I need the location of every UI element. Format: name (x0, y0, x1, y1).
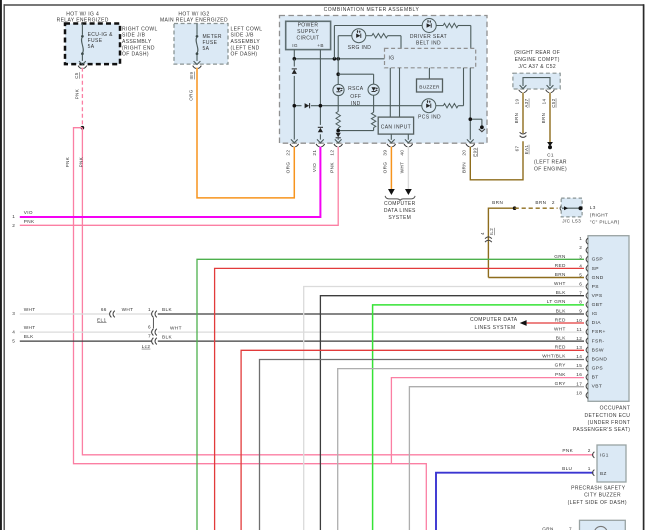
node R1 R2 join (336, 129, 340, 133)
wire IG bus horizontal (294, 58, 384, 60)
label PNK 2 buzzer (562, 448, 590, 453)
label wire color PNK at pin (330, 162, 335, 173)
label DRIVER SEAT BELT IND (410, 34, 447, 46)
dashed border combination meter (280, 16, 488, 144)
label BRN left of node (492, 200, 503, 205)
svg-text:DATA LINES: DATA LINES (384, 208, 416, 214)
pin 22 of combination meter (290, 139, 299, 146)
connector Lc2 row 3 (148, 307, 157, 317)
svg-text:17: 17 (576, 381, 582, 386)
svg-text:VBT: VBT (592, 384, 603, 390)
wire PNK pin 12 to left edge pin 2 (20, 147, 338, 226)
svg-text:IG1: IG1 (600, 452, 609, 457)
label PCS IND (418, 114, 441, 120)
svg-text:BRN: BRN (555, 272, 566, 277)
svg-text:ORG: ORG (189, 89, 194, 101)
pin 6 of occupant detection ECU (554, 281, 599, 290)
diode D2 in PCS row (302, 103, 311, 109)
svg-text:BUZZER: BUZZER (419, 84, 440, 90)
svg-text:4: 4 (12, 329, 15, 334)
svg-text:5: 5 (579, 272, 582, 277)
wire PNK to precrash buzzer IG1 (82, 128, 593, 455)
svg-text:BRN: BRN (535, 200, 546, 205)
svg-text:OCCUPANT: OCCUPANT (600, 405, 631, 411)
label L3 RIGHT C PILLAR (590, 205, 620, 224)
svg-text:6: 6 (579, 282, 582, 287)
label pin number 20 (462, 150, 467, 156)
svg-text:COMBINATION METER ASSEMBLY: COMBINATION METER ASSEMBLY (324, 7, 420, 13)
svg-text:IE9: IE9 (189, 71, 194, 79)
svg-text:LT GRN: LT GRN (547, 299, 566, 304)
svg-text:WHT/BLK: WHT/BLK (542, 354, 566, 359)
connector label C5 (74, 72, 79, 79)
pin 17 of occupant detection ECU (555, 381, 603, 390)
label OCCUPANT DETECTION ECU (UNDER FRONT PASSENGER'S SEAT) (573, 405, 630, 433)
svg-text:5A: 5A (88, 44, 95, 50)
svg-text:8: 8 (579, 300, 582, 305)
svg-text:PNK: PNK (562, 448, 573, 453)
label pin number 21 (312, 150, 317, 156)
svg-text:C52: C52 (551, 98, 556, 108)
connector EA1 inline (520, 132, 527, 137)
pin 5 left edge BLK (12, 334, 34, 343)
svg-text:SIDE J/B: SIDE J/B (231, 33, 255, 39)
label pin number 22 (286, 150, 291, 156)
connector buzzer pin 1 (593, 470, 595, 476)
wire WHT ECU pin 6 PS (304, 287, 584, 530)
svg-text:ORG: ORG (383, 162, 388, 174)
svg-text:1: 1 (148, 307, 151, 312)
wire BLK row 5 left (20, 340, 152, 342)
svg-text:(RIGHT REAR OF: (RIGHT REAR OF (514, 50, 560, 56)
svg-text:5A: 5A (203, 46, 210, 52)
svg-text:SYSTEM: SYSTEM (388, 215, 411, 221)
wire PNK dashed from ECU-IG fuse (75, 68, 83, 128)
svg-text:14: 14 (541, 99, 546, 105)
wire VIO pin 21 to left edge pin 1 (20, 147, 321, 217)
wire GRN ECU pin 3 GSP (197, 259, 584, 530)
svg-text:WHT: WHT (400, 162, 405, 174)
svg-text:A37: A37 (524, 98, 529, 107)
label 67 EA1 (514, 145, 528, 155)
svg-text:(LEFT END: (LEFT END (231, 45, 260, 51)
svg-text:(LEFT REAR: (LEFT REAR (534, 159, 567, 165)
pin 9 of occupant detection ECU (556, 308, 598, 317)
node BRN branch to J/C L53 (513, 206, 517, 210)
svg-text:2: 2 (12, 223, 15, 228)
node IG bus at IG pin (293, 57, 297, 61)
pin 40 of combination meter (404, 139, 413, 146)
wire BLU to buzzer BZ (436, 473, 593, 530)
combination meter assembly block (280, 16, 488, 144)
label METER FUSE 5A (203, 34, 222, 52)
svg-text:7: 7 (569, 526, 572, 530)
label wire color ORG at pin (383, 162, 388, 174)
svg-text:PNK: PNK (24, 219, 35, 224)
svg-text:16: 16 (576, 372, 582, 377)
wire U link inside J/C (523, 78, 550, 86)
svg-text:WHT: WHT (554, 281, 566, 286)
svg-text:19: 19 (514, 99, 519, 105)
label ECU-IG FUSE 5A (88, 32, 114, 50)
diode D3 +B column (318, 125, 324, 134)
svg-text:4: 4 (480, 232, 485, 235)
connector label E99 (472, 148, 477, 157)
label PNK left riser (65, 157, 70, 167)
svg-text:EA1: EA1 (524, 145, 529, 155)
wire WHT row 3 to EL1 (20, 313, 110, 315)
op SRG indicator LED (352, 29, 366, 43)
pin 3 of occupant detection ECU (554, 254, 603, 263)
wire WHT pin 40 to data link (407, 147, 409, 190)
power supply circuit box U1 (286, 21, 331, 49)
svg-text:(LEFT SIDE OF DASH): (LEFT SIDE OF DASH) (568, 500, 627, 506)
label RSCA OFF IND (348, 86, 364, 107)
wire BLK row 5 to ECU pin 12 (158, 334, 584, 341)
svg-text:GRY: GRY (555, 381, 567, 386)
svg-text:PNK: PNK (75, 89, 80, 99)
pin 1 left edge VIO (12, 210, 33, 219)
diode D4 to pin 12 (336, 133, 341, 140)
resistor PCS ind (436, 68, 464, 108)
wire RED DIA to computer data lines (527, 322, 584, 324)
svg-text:7: 7 (148, 333, 151, 338)
label BRN 2 right of node (535, 200, 555, 205)
wire CAN input feeds (390, 68, 399, 117)
svg-text:EL1: EL1 (97, 317, 106, 322)
wire WHT row 4 left (20, 331, 152, 333)
svg-text:BZ: BZ (600, 471, 607, 476)
svg-text:15: 15 (576, 363, 582, 368)
pin 2 of occupant detection ECU (579, 245, 588, 253)
pin 7 of occupant detection ECU (556, 290, 603, 299)
resistor R1 below left RSCA LED (336, 96, 340, 132)
label SRG IND (348, 45, 372, 51)
label 66 EL1 (97, 307, 107, 322)
wire PCS row (294, 105, 422, 107)
arrow ORG to computer data lines (388, 189, 395, 195)
label pin number 39 (383, 150, 388, 156)
pin 3 left edge WHT (12, 307, 35, 316)
svg-text:RED: RED (555, 263, 566, 268)
svg-text:C5: C5 (74, 72, 79, 79)
svg-text:BRN: BRN (462, 162, 467, 173)
svg-text:ASSEMBLY: ASSEMBLY (122, 39, 152, 45)
svg-text:ORG: ORG (286, 162, 291, 174)
svg-text:PNK: PNK (330, 162, 335, 173)
svg-text:SUPPLY: SUPPLY (297, 29, 319, 35)
label COMPUTER DATA LINES SYSTEM left arrow (470, 317, 518, 331)
svg-text:WHT: WHT (122, 307, 134, 312)
svg-text:10: 10 (576, 318, 582, 323)
svg-text:IG: IG (389, 55, 395, 61)
svg-text:3: 3 (12, 311, 15, 316)
wire riser to SRG ind (338, 36, 352, 59)
junction block J/C L53 (561, 198, 582, 217)
wire BRN GND riser to ECU pin 5 (488, 208, 514, 277)
pin 19 of J/C A37 (519, 85, 528, 92)
wire PNK ECU pin 16 BT (391, 378, 584, 464)
svg-text:66: 66 (101, 307, 107, 312)
svg-text:21: 21 (312, 150, 317, 156)
svg-text:VIO: VIO (312, 163, 317, 172)
svg-text:PS: PS (592, 284, 600, 290)
dashed IG sub-box (385, 48, 476, 67)
svg-text:IG: IG (292, 43, 298, 48)
svg-text:GRY: GRY (555, 363, 567, 368)
pin 14 of occupant detection ECU (542, 354, 607, 363)
svg-text:DIA: DIA (592, 320, 602, 326)
connector Lc2 row 5 (148, 333, 157, 344)
wire ORG from METER fuse to meter pin 22 (189, 68, 295, 198)
resistor R2 below right RSCA LED (338, 95, 376, 130)
svg-text:6: 6 (148, 324, 151, 329)
svg-text:BRN: BRN (492, 200, 503, 205)
svg-text:(UNDER FRONT: (UNDER FRONT (588, 420, 631, 426)
svg-text:40: 40 (400, 150, 405, 156)
fuse METER 5A symbol (193, 24, 202, 69)
wire RSCA riser (337, 59, 339, 85)
resistor driver seat belt (436, 23, 471, 48)
node ground point C1 (548, 145, 552, 149)
node pin20 tee (469, 117, 473, 121)
node L53 ground point (579, 206, 583, 210)
connector Lc2 bracket (152, 318, 154, 329)
svg-text:39: 39 (383, 150, 388, 156)
label RIGHT COWL SIDE J/B ASSEMBLY (RIGHT END OF DASH) (122, 26, 158, 57)
svg-text:5: 5 (12, 338, 15, 343)
svg-text:DETECTION ECU: DETECTION ECU (585, 413, 631, 419)
svg-text:C1: C1 (547, 153, 554, 158)
svg-text:GRN: GRN (554, 254, 566, 259)
label 4 IL2 (480, 228, 494, 236)
wire IG pin down to bus (293, 50, 295, 59)
buzzer box (417, 79, 443, 92)
svg-text:J/C L53: J/C L53 (562, 219, 581, 224)
svg-text:COMPUTER: COMPUTER (384, 201, 416, 207)
pin 11 of occupant detection ECU (554, 326, 606, 335)
pin 8 of occupant detection ECU (547, 299, 603, 308)
label pin number 12 (330, 150, 335, 156)
svg-text:PRECRASH SAFETY: PRECRASH SAFETY (571, 485, 626, 491)
label pin 19 A37 (514, 98, 528, 107)
svg-text:CITY BUZZER: CITY BUZZER (584, 493, 621, 499)
node RSCA branch (336, 72, 340, 76)
wire riser to driver seat belt ind (334, 26, 422, 59)
svg-text:WHT: WHT (24, 307, 36, 312)
svg-text:CIRCUIT: CIRCUIT (297, 36, 320, 42)
wire into L53 ground (562, 206, 581, 210)
node PCS row at +B column (319, 104, 323, 108)
svg-text:VPS: VPS (592, 293, 603, 299)
wire pin 20 column with ground tap (470, 68, 482, 140)
label PRECRASH SAFETY CITY BUZZER (LEFT SIDE OF DASH) (568, 485, 627, 505)
connector Lc2 row 4 (148, 324, 157, 335)
wire RED ECU pin 13 BSW (241, 350, 584, 530)
svg-text:CAN INPUT: CAN INPUT (381, 125, 411, 131)
dashed border left cowl J/B (174, 24, 228, 65)
svg-text:BLK: BLK (162, 334, 172, 339)
label BLU 1 buzzer (562, 466, 591, 471)
svg-text:OF ENGINE): OF ENGINE) (534, 166, 567, 172)
svg-text:7: 7 (579, 291, 582, 296)
svg-text:VIO: VIO (24, 210, 33, 215)
svg-text:DRIVER SEAT: DRIVER SEAT (410, 34, 447, 40)
svg-text:BSW: BSW (592, 347, 604, 353)
label COMBINATION METER ASSEMBLY (324, 7, 420, 13)
svg-text:22: 22 (286, 150, 291, 156)
wire GRY ECU pin 15 GPS (338, 369, 584, 530)
svg-text:BGND: BGND (592, 356, 608, 362)
svg-text:Lc2: Lc2 (142, 344, 151, 349)
svg-text:14: 14 (576, 354, 582, 359)
connector EL1 inline (110, 311, 115, 318)
wire WHT row 4 to ECU pin 11 (158, 325, 584, 332)
wire LT GRN ECU pin 8 GBT (373, 305, 584, 530)
node IG bus riser 1 (333, 57, 337, 61)
junction block A37 C52 box (513, 73, 560, 89)
ground tap inside meter (479, 125, 485, 131)
wire BRN A37 down to EA1 connector (514, 93, 523, 134)
pin 2 left edge PNK (12, 219, 35, 228)
label wire color VIO at pin (312, 163, 317, 172)
svg-text:WHT: WHT (24, 325, 36, 330)
label RIGHT REAR OF ENGINE COMPT J/C A37 C52 (514, 50, 560, 70)
op PCS indicator LED (422, 99, 436, 113)
label pin number 40 (400, 150, 405, 156)
svg-text:WHT: WHT (170, 325, 182, 330)
pin 16 of occupant detection ECU (555, 372, 599, 381)
wire BRN C52 down to ground C1 (541, 93, 550, 143)
svg-text:67: 67 (514, 146, 519, 152)
wire buzzer feed (428, 68, 430, 79)
svg-text:PNK: PNK (65, 157, 70, 167)
wire BLK ECU pin 7 VPS (320, 296, 584, 530)
svg-text:20: 20 (462, 150, 467, 156)
pin 1 of occupant detection ECU (579, 236, 588, 244)
svg-text:GND: GND (592, 275, 604, 281)
arrow into ground point C1 (547, 142, 553, 146)
svg-text:PNK: PNK (555, 372, 566, 377)
connector at J/C L53 (560, 205, 562, 211)
connector buzzer pin 2 (593, 452, 595, 458)
svg-text:BELT IND: BELT IND (416, 41, 441, 47)
wire WHT row 3 mid segment (116, 307, 152, 314)
arrow WHT to computer data lines (405, 189, 412, 195)
wire RED ECU pin 4 SP (215, 268, 584, 530)
pin 21 of combination meter (316, 139, 325, 146)
op RSCA OFF ind LED left (333, 84, 344, 95)
svg-text:1: 1 (12, 214, 15, 219)
svg-text:+B: +B (317, 43, 324, 48)
svg-text:1: 1 (588, 466, 591, 471)
label Lc2 (142, 344, 151, 349)
svg-text:RED: RED (555, 317, 566, 322)
wire WHT/BLK ECU pin 14 BGND (260, 360, 585, 530)
CAN input box (378, 117, 413, 134)
node IG bus riser 2 (336, 57, 340, 61)
svg-text:ASSEMBLY: ASSEMBLY (231, 39, 261, 45)
label C1 LEFT REAR OF ENGINE (534, 153, 567, 173)
J/B block right cowl (ECU-IG fuse) (65, 24, 120, 65)
svg-text:LEFT COWL: LEFT COWL (231, 26, 263, 32)
label GRN 7 bottom (542, 526, 572, 530)
pin 12 of occupant detection ECU (556, 336, 605, 345)
svg-text:FSR-: FSR- (592, 338, 605, 344)
connector IL2 inline (485, 237, 492, 242)
svg-text:J/C A37 & C52: J/C A37 & C52 (518, 64, 556, 70)
fuse ECU-IG 5A symbol (78, 24, 87, 69)
svg-text:1: 1 (579, 236, 582, 241)
svg-text:12: 12 (576, 336, 582, 341)
svg-text:13: 13 (576, 345, 582, 350)
wire BRN pin 20 to EA1 (470, 141, 523, 180)
pin 20 of combination meter (466, 139, 475, 146)
wire +B pin down to pin 21 (319, 50, 321, 140)
svg-text:9: 9 (579, 309, 582, 314)
node PCS row left (293, 104, 297, 108)
svg-text:RIGHT COWL: RIGHT COWL (122, 26, 158, 32)
svg-text:PCS IND: PCS IND (418, 114, 441, 120)
svg-text:COMPUTER DATA: COMPUTER DATA (470, 317, 518, 323)
svg-text:BLK: BLK (24, 334, 34, 339)
connector label IE9 (189, 71, 194, 79)
svg-text:3: 3 (579, 254, 582, 259)
wire BLK row 3 to ECU pin 9 (158, 307, 584, 314)
svg-text:WHT: WHT (554, 326, 566, 331)
svg-text:BLK: BLK (556, 290, 566, 295)
svg-text:IND: IND (351, 101, 361, 107)
arrow computer data lines left (520, 320, 527, 326)
svg-text:BT: BT (592, 375, 599, 381)
svg-text:(RIGHT: (RIGHT (590, 212, 608, 217)
pin 13 of occupant detection ECU (555, 345, 604, 354)
pin 10 of occupant detection ECU (555, 317, 601, 326)
wire BRN dashed to J/C L53 (515, 207, 558, 209)
svg-text:FSR+: FSR+ (592, 329, 606, 335)
svg-text:GSP: GSP (592, 257, 603, 263)
label COMPUTER DATA LINES SYSTEM bottom (384, 201, 416, 221)
svg-text:18: 18 (576, 390, 582, 395)
pin 39 of combination meter (387, 139, 396, 146)
svg-text:BLK: BLK (556, 336, 566, 341)
wire RSCA branch to right LED (338, 74, 373, 84)
label wire color ORG at pin (286, 162, 291, 174)
svg-text:BRN: BRN (541, 113, 546, 124)
svg-text:OF DASH): OF DASH) (122, 52, 149, 58)
pin 12 of combination meter (334, 139, 343, 146)
svg-text:MAIN RELAY ENERGIZED: MAIN RELAY ENERGIZED (160, 17, 228, 23)
label pin 14 C52 (541, 98, 555, 108)
svg-text:POWER: POWER (298, 23, 319, 29)
pin 14 of J/C C52 (546, 85, 555, 92)
op RSCA OFF ind LED right (368, 84, 379, 95)
svg-text:OF DASH): OF DASH) (231, 52, 258, 58)
resistor SRG ind (366, 34, 401, 49)
label PNK right riser (79, 157, 84, 167)
svg-text:GBT: GBT (592, 302, 603, 308)
svg-text:BLK: BLK (162, 307, 172, 312)
label LEFT COWL SIDE J/B ASSEMBLY (LEFT END OF DASH) (231, 26, 263, 57)
svg-text:IG: IG (592, 311, 598, 317)
svg-text:SP: SP (592, 266, 599, 272)
svg-text:BLK: BLK (556, 308, 566, 313)
svg-text:E99: E99 (472, 148, 477, 157)
wire ORG pin 39 to data link (390, 147, 392, 190)
svg-text:2: 2 (588, 448, 591, 453)
label J/C L53 (562, 219, 581, 224)
svg-text:SRG IND: SRG IND (348, 45, 372, 51)
